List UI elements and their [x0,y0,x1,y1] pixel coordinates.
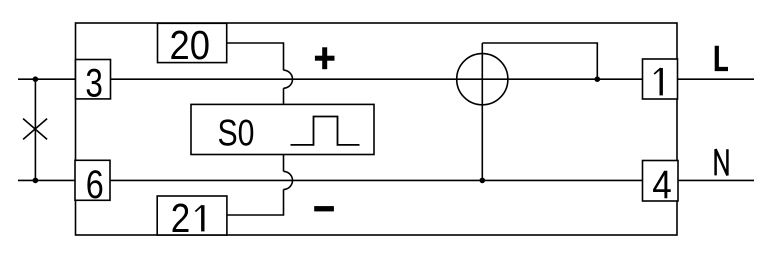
wire from terminal 21 to S0 box with hop over N [227,155,293,216]
polarity plus sign [315,47,335,69]
label L [717,46,728,69]
terminal 3 [76,60,111,99]
wire L line [18,78,754,80]
S0 pulse output box [191,104,374,154]
svg-text:6: 6 [86,163,104,207]
node junction dot on N [480,178,486,184]
wire N line [18,179,754,181]
wire from terminal 20 to S0 box with hop over L [227,43,293,104]
svg-text:2: 2 [171,195,191,241]
svg-text:3: 3 [85,61,103,105]
terminal 6 [75,160,110,200]
pulse waveform symbol [291,117,360,145]
svg-text:20: 20 [170,22,211,68]
terminal box 20 [158,23,227,62]
svg-text:S0: S0 [218,113,255,154]
wire voltage tap vertical through circle [481,43,483,180]
terminal box 21 [157,196,227,235]
wire bypass from circle top to L [482,43,597,79]
label 21 [171,195,203,241]
terminal 4 [643,161,679,202]
label 1 [654,68,661,95]
wire left link vertical [34,79,36,180]
breaker X mark [23,119,47,140]
label N [716,149,728,175]
polarity minus sign [314,206,334,211]
measuring element circle [457,54,508,105]
node junction dot left L [33,76,39,82]
meter housing [76,23,678,235]
node junction dot left N [33,178,39,184]
svg-text:4: 4 [652,163,672,207]
node junction dot on L [595,76,601,82]
terminal 1 [643,59,678,99]
